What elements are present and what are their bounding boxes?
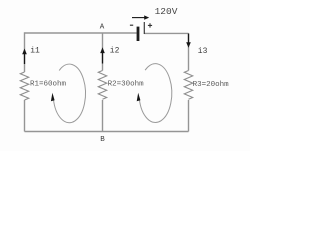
current direction arrow above battery: [132, 15, 149, 19]
mesh loop 1 arrowhead: [51, 93, 55, 101]
svg-text:i3: i3: [198, 47, 208, 56]
branch current arrow i3: [186, 34, 191, 48]
svg-text:i1: i1: [30, 47, 40, 56]
wire middle branch lower: [102, 100, 104, 132]
mesh loop 1 arc: [53, 64, 85, 123]
branch current arrow i2: [100, 47, 105, 63]
wire middle branch upper: [102, 33, 104, 71]
wire bottom: [25, 131, 189, 133]
wire right branch upper: [188, 33, 190, 70]
svg-text:R2=30ohm: R2=30ohm: [108, 81, 145, 89]
wire top left segment (A to battery): [25, 32, 137, 34]
svg-text:120V: 120V: [155, 6, 178, 17]
battery V1 negative plate (thick): [137, 27, 140, 41]
resistor R3: [184, 71, 192, 100]
wire top right segment (battery to top-right corner): [144, 32, 188, 34]
svg-text:A: A: [100, 24, 105, 32]
battery plus sign: [148, 23, 152, 27]
svg-text:B: B: [100, 136, 105, 144]
resistor R2: [98, 71, 106, 100]
battery minus sign: [130, 24, 133, 26]
wire right branch lower: [188, 100, 190, 132]
mesh loop 2 arc: [139, 64, 171, 123]
svg-text:R1=60ohm: R1=60ohm: [30, 81, 67, 89]
battery V1 positive plate (thin): [143, 22, 145, 34]
wire left branch lower: [24, 100, 26, 132]
mesh loop 2 arrowhead: [137, 93, 141, 101]
branch current arrow i1: [22, 49, 27, 65]
wire left branch upper: [24, 32, 26, 72]
resistor R1: [20, 72, 28, 100]
svg-text:i2: i2: [110, 47, 120, 56]
svg-text:R3=20ohm: R3=20ohm: [193, 81, 230, 89]
